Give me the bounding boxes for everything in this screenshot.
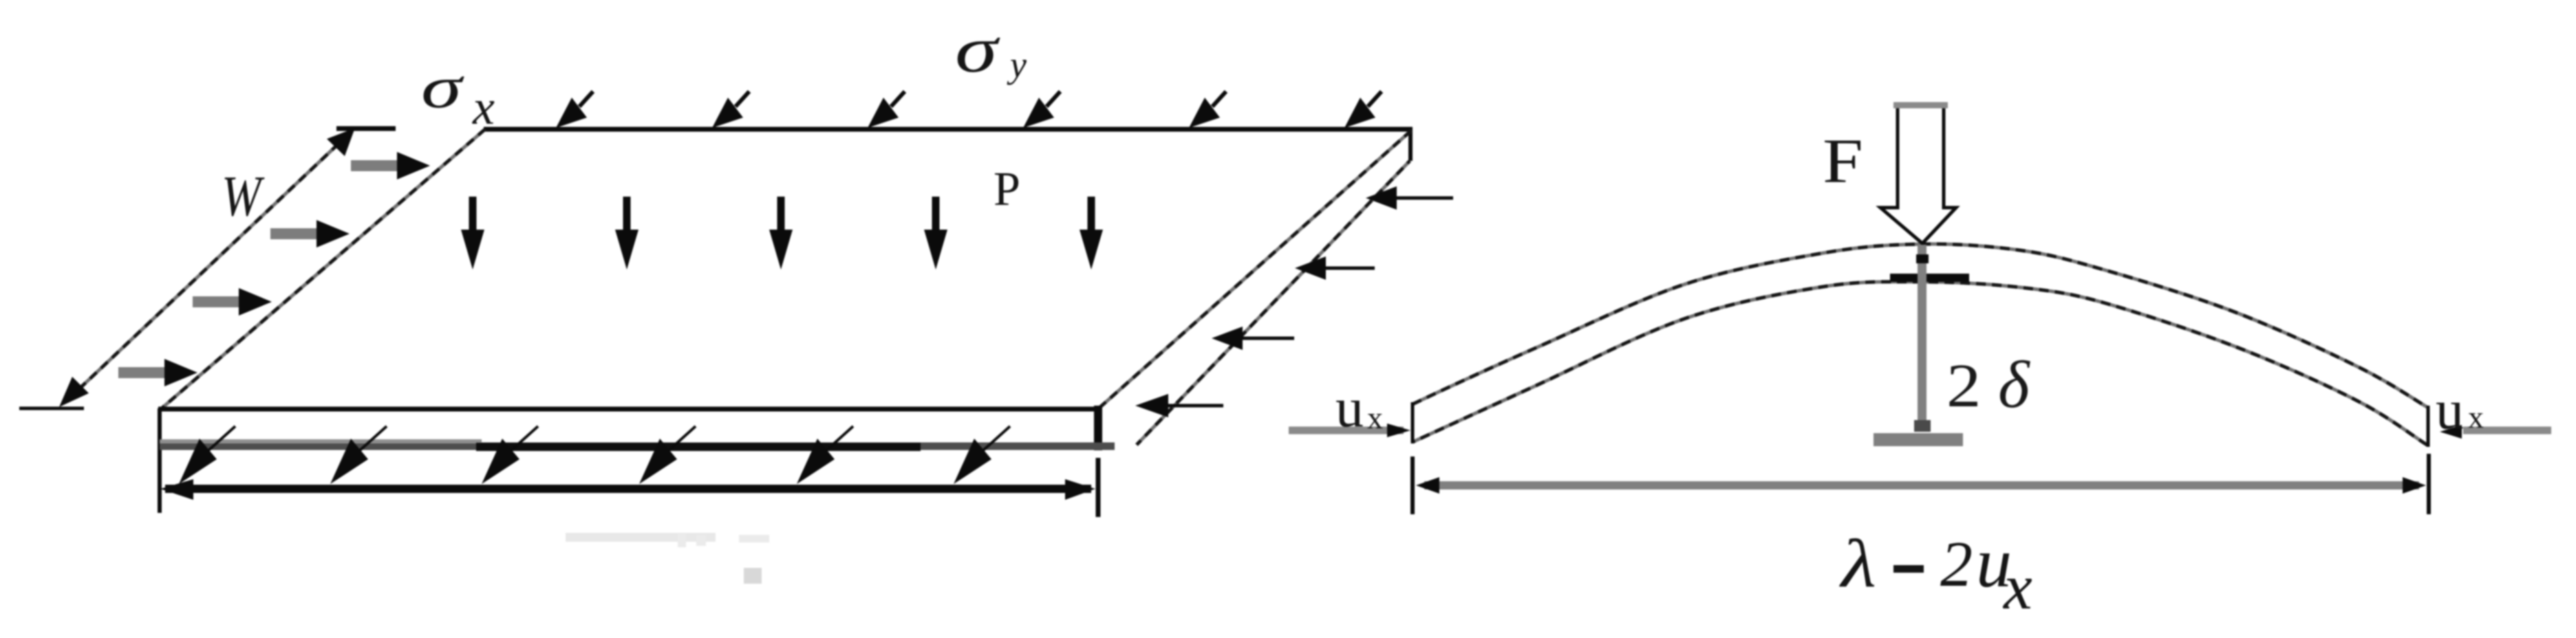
svg-text:F: F: [1823, 126, 1863, 196]
svg-text:W: W: [222, 164, 265, 228]
faint smudge artifact: [744, 568, 762, 584]
membrane right end edge: [2427, 406, 2430, 447]
svg-text:y: y: [1007, 44, 1027, 85]
sigma_y arrow 1 on top edge: [556, 91, 593, 128]
sigma_x arrow 1 on right edge: [1366, 186, 1453, 210]
sigma_y arrow 5 on top edge: [1189, 91, 1226, 128]
svg-text:σ: σ: [955, 14, 1000, 86]
sigma_x arrow 2 on right edge: [1295, 256, 1375, 280]
svg-text:x: x: [472, 80, 495, 135]
span dimension left arrowhead: [1416, 477, 1439, 494]
W dimension bottom arrowhead: [59, 377, 89, 407]
bottom dimension left arrowhead: [160, 479, 193, 500]
plate top-right corner stub: [1408, 128, 1413, 161]
front face shear arrow 5: [797, 426, 853, 484]
pressure P arrow 5: [1080, 197, 1103, 269]
bottom dimension line: [165, 485, 1091, 493]
plate front face left edge and dimension tick: [158, 408, 162, 513]
svg-text:2: 2: [1940, 529, 1973, 600]
label u_x left: [1335, 376, 1383, 439]
front face shear arrow 6: [954, 426, 1010, 484]
left u_x gray line: [1289, 427, 1404, 434]
W dimension top tick: [336, 126, 396, 131]
plate front face bottom edge gray: [160, 443, 1115, 450]
plate top edge: [484, 127, 1413, 132]
plate right edge inner line: [1099, 131, 1411, 408]
membrane lower curve: [1413, 282, 2428, 445]
svg-text:x: x: [2002, 551, 2032, 623]
front face shear arrow 1: [179, 426, 235, 484]
membrane upper curve: [1413, 244, 2428, 408]
plate front face right edge: [1094, 406, 1102, 450]
svg-text:2: 2: [1946, 351, 1981, 420]
label lambda minus 2 u_x: [1839, 523, 2032, 623]
svg-text:x: x: [1367, 400, 1383, 435]
plate left edge line: [162, 129, 485, 408]
crown thick segment: [1890, 274, 1969, 282]
right u_x arrowhead: [2440, 425, 2462, 439]
svg-text:λ: λ: [1839, 525, 1876, 602]
membrane left end edge: [1411, 402, 1415, 443]
plate front face bottom edge black segment: [476, 443, 921, 451]
front face shear arrow 4: [639, 426, 696, 484]
svg-text:x: x: [2468, 399, 2484, 434]
right u_x gray line: [2463, 427, 2551, 434]
W dimension line: [70, 133, 350, 397]
svg-text:P: P: [994, 163, 1020, 216]
W dimension bottom tick: [19, 407, 84, 410]
plate right edge outer line: [1137, 161, 1410, 445]
deflection bar bottom marker: [1914, 420, 1931, 432]
pressure P arrow 1: [461, 197, 484, 269]
sigma_y arrow 6 on top edge: [1344, 91, 1382, 128]
sigma_x arrow 4 on left edge: [118, 359, 197, 386]
svg-text:δ: δ: [1998, 348, 2030, 422]
sigma_y arrow 4 on top edge: [1023, 91, 1060, 128]
plate front face bottom edge light segment: [160, 439, 482, 443]
bottom right dimension tick: [1096, 458, 1101, 517]
sigma_x arrow 3 on right edge: [1212, 327, 1294, 350]
sigma_y arrow 2 on top edge: [712, 91, 749, 128]
front face shear arrow 3: [482, 426, 538, 484]
deflection bar top marker: [1916, 254, 1929, 263]
pressure P arrow 3: [769, 197, 793, 269]
svg-text:u: u: [2436, 378, 2464, 441]
faint erased text artifact: [566, 533, 769, 547]
force F hollow arrow: [1880, 105, 1956, 243]
sigma_y arrow 3 on top edge: [868, 91, 905, 128]
sigma_x arrow 4 on right edge: [1135, 394, 1223, 417]
svg-text:σ: σ: [421, 54, 464, 120]
span dimension right tick: [2427, 454, 2431, 514]
label u_x right: [2436, 378, 2484, 441]
label 2 delta: [1946, 348, 2030, 422]
W dimension top arrowhead: [327, 128, 355, 156]
sigma_x arrow 1 on left edge: [351, 152, 430, 179]
front face shear arrow 2: [330, 426, 387, 484]
span dimension line: [1424, 481, 2419, 489]
pressure P arrow 2: [615, 197, 638, 269]
bottom dimension right arrowhead: [1065, 479, 1095, 500]
plate front face top edge: [158, 407, 1101, 412]
left u_x arrowhead: [1387, 423, 1410, 437]
ground bar: [1874, 433, 1963, 446]
sigma_x arrow 2 on left edge: [270, 220, 350, 247]
sigma_x arrow 3 on left edge: [193, 288, 272, 316]
span dimension left tick: [1410, 456, 1415, 514]
pressure P arrow 4: [924, 197, 947, 269]
span dimension right arrowhead: [2403, 477, 2426, 494]
svg-text:u: u: [1335, 376, 1364, 439]
deflection bar vertical: [1918, 245, 1926, 428]
